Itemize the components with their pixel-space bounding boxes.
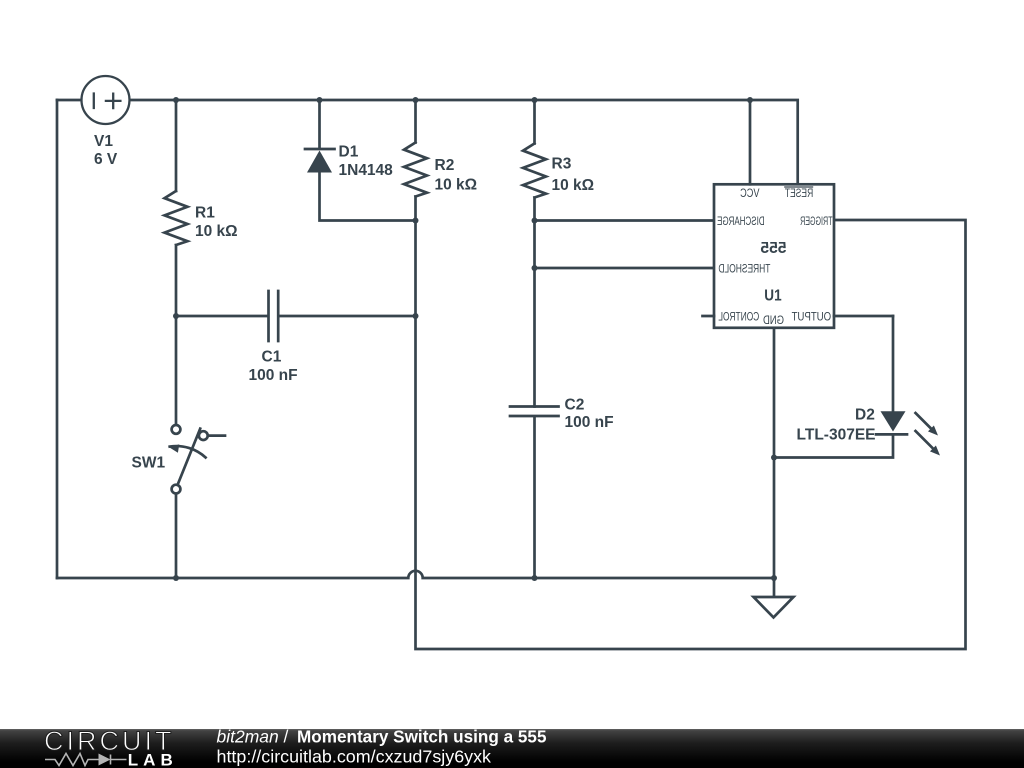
svg-text:THRESHOLD: THRESHOLD: [718, 261, 770, 275]
svg-text:OUTPUT: OUTPUT: [791, 309, 831, 323]
svg-text:LAB: LAB: [128, 751, 178, 768]
svg-text:TRIGGER: TRIGGER: [800, 214, 833, 228]
svg-text:LTL-307EE: LTL-307EE: [797, 427, 876, 444]
svg-text:bit2man: bit2man: [217, 727, 279, 747]
svg-text:C2: C2: [565, 397, 585, 414]
svg-text:/: /: [284, 727, 289, 747]
svg-text:RESET: RESET: [784, 186, 813, 200]
svg-text:SW1: SW1: [132, 455, 166, 472]
svg-text:R3: R3: [552, 156, 572, 173]
svg-text:555: 555: [760, 240, 786, 257]
svg-text:100 nF: 100 nF: [565, 414, 614, 431]
svg-text:CONTROL: CONTROL: [718, 309, 759, 323]
svg-text:6 V: 6 V: [94, 151, 118, 168]
svg-text:http://circuitlab.com/cxzud7sj: http://circuitlab.com/cxzud7sjy6yxk: [217, 747, 492, 767]
svg-text:D1: D1: [339, 144, 359, 161]
svg-text:10 kΩ: 10 kΩ: [552, 177, 595, 194]
svg-text:Momentary Switch using a 555: Momentary Switch using a 555: [297, 727, 547, 747]
svg-text:1N4148: 1N4148: [339, 162, 394, 179]
svg-text:U1: U1: [764, 288, 781, 305]
svg-text:D2: D2: [855, 407, 875, 424]
svg-text:VCC: VCC: [740, 186, 760, 200]
svg-text:10 kΩ: 10 kΩ: [195, 223, 238, 240]
svg-text:10 kΩ: 10 kΩ: [435, 177, 478, 194]
svg-text:R2: R2: [435, 157, 455, 174]
svg-text:100 nF: 100 nF: [249, 367, 298, 384]
svg-text:GND: GND: [763, 313, 784, 327]
svg-text:C1: C1: [262, 349, 282, 366]
svg-text:DISCHARGE: DISCHARGE: [717, 214, 765, 228]
svg-text:R1: R1: [195, 205, 215, 222]
svg-text:V1: V1: [94, 133, 113, 150]
